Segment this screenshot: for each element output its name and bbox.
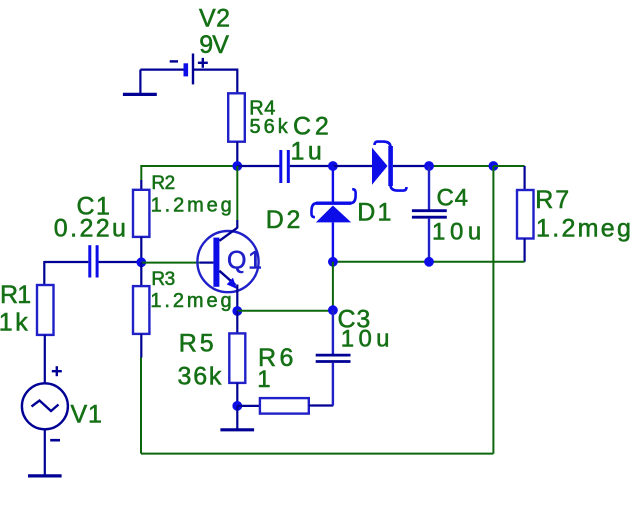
node junction C4 bottom	[424, 257, 434, 267]
wire bottom rail	[141, 453, 493, 455]
diode D1 (zener, horizontal)	[333, 142, 429, 191]
battery V2	[140, 54, 237, 94]
svg-text:56k: 56k	[250, 116, 291, 138]
svg-text:R1: R1	[0, 281, 30, 309]
capacitor C3	[316, 310, 351, 405]
resistor R4	[228, 93, 245, 166]
node junction base	[136, 257, 146, 267]
node junction emitter	[232, 306, 242, 316]
wire	[140, 68, 184, 70]
svg-text:10u: 10u	[341, 326, 394, 353]
diode D2 (zener, vertical)	[312, 166, 356, 262]
svg-text:D1: D1	[357, 198, 393, 226]
node junction R5/R6	[232, 401, 242, 411]
battery long plate (positive)	[192, 54, 194, 85]
wire top rail	[141, 165, 237, 167]
svg-text:V2: V2	[199, 5, 231, 33]
svg-text:R2: R2	[151, 173, 174, 194]
wire base (green)	[141, 262, 199, 264]
ground (R5/R6)	[220, 406, 254, 430]
resistor R6	[237, 398, 333, 414]
capacitor C4	[412, 166, 447, 262]
svg-text:10u: 10u	[432, 219, 486, 246]
svg-text:V1: V1	[71, 400, 103, 428]
svg-text:0.22u: 0.22u	[54, 215, 129, 243]
svg-text:1u: 1u	[291, 138, 326, 166]
wire D2-C3 (green)	[332, 262, 334, 310]
svg-text:R3: R3	[151, 269, 174, 290]
svg-text:9V: 9V	[199, 31, 229, 59]
wire collector (green)	[236, 166, 238, 220]
svg-text:1: 1	[257, 366, 270, 393]
resistor R1	[37, 285, 54, 384]
svg-text:36k: 36k	[178, 363, 224, 391]
svg-text:R5: R5	[179, 330, 217, 358]
svg-text:R7: R7	[535, 186, 571, 214]
wire	[429, 261, 525, 263]
node junction C4 top	[424, 161, 434, 171]
battery short plate (negative)	[184, 63, 189, 76]
svg-text:1.2meg: 1.2meg	[151, 194, 235, 216]
resistor R2	[133, 165, 149, 262]
wire bottom row	[333, 261, 429, 263]
ground (V1)	[28, 474, 62, 477]
resistor R5	[229, 311, 245, 406]
node junction D2 bottom	[328, 257, 338, 267]
capacitor C2	[237, 150, 333, 183]
svg-text:C2: C2	[293, 112, 333, 140]
wire	[493, 165, 524, 167]
wire emitter row (green)	[237, 310, 333, 312]
wire	[236, 69, 238, 94]
svg-text:D2: D2	[266, 206, 303, 234]
node junction C3 top	[328, 305, 338, 315]
node junction D2 top	[328, 161, 338, 171]
resistor R3	[133, 262, 149, 357]
wire right column (green)	[492, 166, 494, 454]
svg-text:Q1: Q1	[227, 247, 263, 275]
node junction right column top	[489, 161, 499, 171]
wire	[194, 68, 237, 70]
wire left column (green)	[140, 357, 142, 454]
transistor Q1	[197, 220, 258, 311]
voltage source V1	[22, 366, 68, 475]
capacitor C1	[44, 245, 141, 285]
resistor R7	[517, 166, 534, 262]
minus sign	[170, 60, 178, 62]
node junction R4/C2	[232, 161, 242, 171]
plus sign	[198, 62, 208, 64]
svg-text:1k: 1k	[0, 309, 30, 337]
svg-text:C4: C4	[437, 184, 469, 211]
svg-text:1.2meg: 1.2meg	[150, 290, 234, 312]
wire	[429, 165, 493, 167]
svg-text:1.2meg: 1.2meg	[536, 215, 633, 243]
ground (battery)	[123, 70, 157, 95]
